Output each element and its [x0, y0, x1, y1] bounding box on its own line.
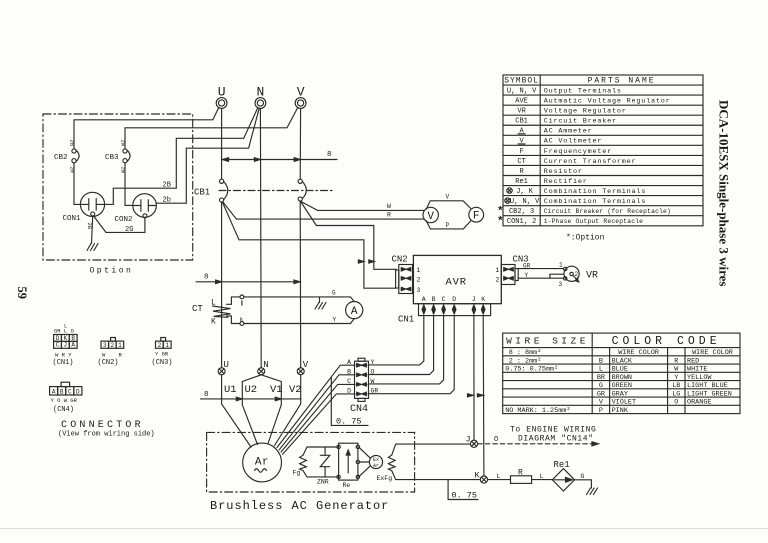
svg-text:GR: GR [523, 262, 531, 269]
wire U vertical to CB1 [221, 108, 223, 179]
svg-text:F: F [519, 148, 523, 156]
svg-text:O: O [674, 399, 678, 407]
svg-text:Y: Y [371, 359, 375, 366]
svg-text:0. 75: 0. 75 [336, 416, 362, 426]
svg-text:SYMBOL: SYMBOL [504, 77, 539, 86]
svg-text:DCA-10ESX Single-phase 3 wire: DCA-10ESX Single-phase 3 wires [717, 100, 732, 286]
svg-text:CON1, 2: CON1, 2 [507, 218, 536, 226]
node U [218, 360, 229, 375]
wire U2 to generator [242, 375, 261, 445]
svg-text:*: * [497, 216, 504, 228]
svg-text:To ENGINE WIRING: To ENGINE WIRING [510, 426, 596, 435]
wire K to resistor R [488, 479, 511, 481]
wire V2 to generator [275, 375, 301, 446]
svg-text:(CN3): (CN3) [152, 359, 173, 367]
svg-text:U2: U2 [245, 384, 258, 396]
svg-text:L: L [64, 323, 67, 330]
svg-text:G: G [332, 290, 336, 297]
svg-text:2B: 2B [163, 182, 171, 190]
wire U terminal to CB2 [74, 108, 219, 149]
rectifier Re1 [552, 460, 574, 491]
svg-text:2 : 2mm²: 2 : 2mm² [509, 357, 542, 365]
svg-text:Combination Terminals: Combination Terminals [544, 198, 646, 206]
svg-text:G: G [599, 382, 603, 390]
wire U1 to generator [222, 375, 251, 447]
svg-text:CB1: CB1 [194, 188, 210, 198]
svg-text:AC Ammeter: AC Ammeter [544, 128, 593, 136]
svg-text:P: P [599, 407, 603, 415]
wire CN4 C to generator [281, 384, 355, 452]
wire CN1 K down [482, 316, 485, 476]
wire CT to ammeter (bottom) [244, 319, 354, 324]
option box [43, 114, 193, 260]
CT secondary terminal k [240, 322, 244, 326]
svg-text:1: 1 [417, 267, 421, 274]
resistor ExFg [377, 455, 396, 482]
svg-text:GR: GR [371, 388, 379, 395]
svg-text:C: C [442, 296, 446, 303]
svg-text:VR: VR [517, 108, 526, 116]
svg-text:1: 1 [559, 262, 563, 269]
node J [466, 435, 478, 448]
svg-text:GR: GR [597, 390, 605, 398]
wire CN3 pin2 to VR (Y) [518, 277, 564, 279]
svg-text:W R Y: W R Y [55, 352, 72, 359]
wire CN1 C to CN4 [369, 316, 444, 384]
wire N terminal to CON2 (2b) [156, 108, 259, 203]
wire size and color code table [503, 333, 740, 414]
wire CT to ammeter (top) [244, 297, 354, 302]
svg-text:U: U [224, 360, 229, 370]
wire CB1 right to V-meter (W) [301, 202, 423, 211]
wire CB2 to CON1 [74, 163, 80, 205]
CN1 pin pins [422, 305, 485, 314]
svg-text:2W: 2W [120, 140, 127, 147]
wire size dimension 8 (top) [222, 151, 337, 161]
node V [297, 360, 309, 375]
AVR box U1 [413, 255, 501, 303]
svg-text:Re1: Re1 [515, 178, 528, 186]
svg-text:2: 2 [496, 276, 500, 283]
svg-text:PARTS NAME: PARTS NAME [588, 77, 656, 86]
tick marks J K [468, 394, 474, 397]
wire CB1 left to V-meter (R) [223, 202, 425, 220]
svg-text:ORANGE: ORANGE [687, 399, 711, 407]
wire ExFg to node K [392, 471, 481, 480]
node N [258, 360, 269, 375]
svg-text:U: U [218, 85, 226, 100]
svg-text:2: 2 [158, 342, 162, 349]
combination terminal symbol [507, 188, 512, 193]
svg-text:Voltage Regulator: Voltage Regulator [544, 108, 627, 116]
circuit breaker CB2 [54, 140, 79, 174]
svg-text:A: A [422, 296, 426, 303]
wire V vertical to CB1 [299, 108, 301, 179]
terminal U [216, 85, 227, 109]
svg-text:VR: VR [586, 271, 598, 282]
svg-text:NO MARK: 1.25mm²: NO MARK: 1.25mm² [505, 407, 570, 415]
wire CN4 D to generator [283, 394, 355, 454]
terminal N [255, 85, 266, 109]
svg-text:Circuit Breaker (for Receptacl: Circuit Breaker (for Receptacle) [544, 208, 671, 215]
CT secondary terminal l [240, 295, 244, 299]
svg-text:GRAY: GRAY [612, 390, 628, 398]
svg-text:A: A [52, 389, 56, 396]
svg-text:CN4: CN4 [350, 404, 368, 415]
svg-text:(View from wiring side): (View from wiring side) [58, 431, 155, 439]
svg-text:CB3: CB3 [105, 154, 119, 162]
svg-text:1: 1 [165, 342, 169, 349]
wire CB1 right to node V [299, 201, 302, 368]
svg-text:2G: 2G [86, 223, 93, 230]
wire CON1 to ground [92, 216, 93, 244]
svg-text:V: V [303, 360, 309, 370]
receptacle CON1 [63, 192, 105, 223]
connector legend CN3 [152, 338, 173, 368]
svg-text:CB2: CB2 [54, 154, 68, 162]
wire CN1 B to CN4 [369, 316, 434, 375]
meter underline [518, 133, 525, 135]
svg-text:K: K [211, 318, 216, 327]
svg-text:P: P [446, 222, 450, 229]
circuit breaker CB3 [105, 140, 130, 174]
svg-text:Re: Re [343, 482, 351, 489]
svg-text:B: B [432, 296, 436, 303]
svg-text:K: K [481, 296, 485, 303]
connector legend CN1 [53, 323, 78, 368]
svg-text:1: 1 [496, 267, 500, 274]
wire CN4 B to generator [279, 375, 354, 450]
wire Fg top bus [303, 447, 338, 455]
svg-text:Autmatic Voltage Regulator: Autmatic Voltage Regulator [544, 98, 671, 106]
svg-text:1: 1 [118, 342, 122, 349]
svg-text:L: L [497, 473, 501, 480]
svg-text:2: 2 [575, 271, 579, 278]
svg-text:C: C [56, 342, 60, 349]
svg-text:GREEN: GREEN [612, 382, 632, 390]
wire Re1 to ground [575, 480, 592, 488]
wire CN4 A to generator [277, 365, 355, 447]
potentiometer VR [559, 262, 599, 289]
wire size dimension 8 (mid) [196, 274, 300, 284]
svg-text:Y: Y [674, 374, 678, 382]
wire R to Re1 [532, 479, 553, 481]
svg-text:k: k [240, 316, 244, 323]
svg-text:G: G [581, 473, 585, 480]
svg-text:1-Phase Output Receptacle: 1-Phase Output Receptacle [544, 218, 643, 225]
tick marks on CN2 wires [358, 260, 364, 263]
svg-text:D: D [76, 389, 80, 396]
svg-text:CON2: CON2 [115, 216, 133, 224]
svg-text:Ar: Ar [373, 463, 379, 469]
svg-text:C: C [68, 389, 72, 396]
varistor ZNR [317, 447, 330, 486]
svg-text:R: R [387, 212, 391, 219]
svg-text:LIGHT GREEN: LIGHT GREEN [687, 390, 732, 398]
svg-text:AC Voltmeter: AC Voltmeter [544, 138, 603, 146]
svg-text:COLOR CODE: COLOR CODE [612, 335, 721, 348]
svg-text:Re1: Re1 [554, 460, 570, 470]
svg-text:W: W [371, 378, 375, 385]
wire N terminal to CON1 (2B) [105, 108, 258, 205]
svg-text:V1: V1 [270, 384, 283, 396]
svg-text:3: 3 [417, 287, 421, 294]
svg-text:BLUE: BLUE [612, 366, 628, 374]
svg-text:Combination Terminals: Combination Terminals [544, 188, 646, 196]
svg-text:J: J [472, 296, 476, 303]
svg-text:W: W [387, 203, 391, 210]
svg-text:B: B [60, 389, 64, 396]
svg-text:V: V [297, 85, 305, 100]
svg-text:WIRE SIZE: WIRE SIZE [506, 336, 589, 347]
svg-text:3: 3 [103, 342, 107, 349]
svg-text:Y: Y [525, 272, 529, 279]
parts name table [503, 75, 703, 226]
svg-text:LIGHT BLUE: LIGHT BLUE [687, 382, 728, 390]
svg-text:2B: 2B [69, 140, 76, 147]
connector CN2 [392, 255, 413, 294]
svg-text:J: J [466, 435, 471, 445]
svg-text:AVE: AVE [515, 98, 528, 106]
meter underline [518, 143, 525, 145]
svg-text:Y: Y [333, 317, 337, 324]
svg-text:U, N, V: U, N, V [510, 198, 540, 206]
svg-text:O: O [494, 436, 498, 444]
svg-text:WIRE COLOR: WIRE COLOR [618, 349, 659, 357]
connector CN3 [501, 255, 528, 285]
resistor Fg [293, 455, 307, 476]
svg-text:0. 75: 0. 75 [452, 491, 478, 501]
svg-text:8: 8 [204, 391, 209, 399]
generator armature Ar [243, 443, 282, 482]
svg-text:BROWN: BROWN [612, 374, 632, 382]
svg-text:(CN2): (CN2) [98, 359, 119, 367]
wire V1 to generator [261, 375, 281, 444]
current transformer CT [192, 299, 231, 327]
svg-text:V2: V2 [289, 384, 302, 396]
wire CN1 D to CN4 [369, 316, 455, 394]
wire size 0.75 (K wire) [448, 480, 478, 501]
svg-text:CT: CT [192, 304, 203, 314]
wire size 0.75 (CN4) [331, 378, 368, 426]
note engine wiring [510, 426, 596, 444]
svg-text:U1: U1 [224, 384, 237, 396]
wire CON2 to CON1 (2G) [94, 216, 145, 232]
svg-text:L: L [211, 299, 216, 308]
svg-text:ZNR: ZNR [317, 479, 329, 486]
svg-text:8: 8 [327, 151, 332, 159]
svg-text:AVR: AVR [446, 277, 467, 289]
generator box [207, 432, 415, 492]
svg-text:WHITE: WHITE [687, 366, 707, 374]
wire CB1 left to CN2 pin3 [222, 202, 396, 288]
wire N vertical to node N [259, 108, 262, 367]
connector legend CN2 [98, 338, 124, 368]
wire CB3 to CON2 [125, 163, 133, 206]
CT secondary leads [227, 297, 240, 304]
svg-text:*:Option: *:Option [566, 234, 605, 243]
svg-text:N: N [256, 85, 264, 100]
svg-text:8: 8 [204, 274, 209, 282]
svg-text:A: A [351, 306, 358, 318]
rectifier Re [337, 443, 360, 489]
terminal V [295, 85, 306, 109]
ground (option) [87, 244, 98, 251]
svg-text:(CN4): (CN4) [53, 406, 74, 414]
svg-text:R: R [518, 469, 523, 478]
connector legend CN4 [50, 382, 82, 414]
svg-text:Y GR: Y GR [155, 351, 169, 358]
svg-text:VIOLET: VIOLET [612, 399, 636, 407]
svg-text:3: 3 [559, 281, 563, 288]
svg-text:(CN1): (CN1) [53, 359, 74, 367]
svg-text:Circuit Breaker: Circuit Breaker [544, 118, 617, 126]
svg-text:LB: LB [672, 382, 680, 390]
connector CN4 [347, 358, 378, 415]
svg-text:Current Transformer: Current Transformer [544, 158, 637, 166]
svg-text:U, N, V: U, N, V [507, 87, 537, 95]
ground (Re1) [587, 488, 598, 495]
svg-text:B: B [599, 357, 603, 365]
ground (CT circuit) [315, 297, 326, 309]
wire size dimension 8 (lower) [201, 391, 302, 401]
wire ExFg to node J [392, 444, 471, 455]
wire J to engine (dashed) [478, 436, 599, 446]
wire CN1 A to CN4 [369, 316, 424, 365]
wire CB1 right to CN2 pin1 [301, 202, 396, 269]
svg-text:YELLOW: YELLOW [687, 374, 712, 382]
svg-text:ExFg: ExFg [377, 475, 393, 482]
svg-text:K: K [475, 471, 481, 481]
svg-text:2: 2 [111, 342, 115, 349]
svg-text:Option: Option [90, 267, 134, 276]
receptacle CON2 [115, 194, 157, 224]
svg-text:0.75: 0.75mm²: 0.75: 0.75mm² [505, 366, 558, 374]
svg-text:LG: LG [672, 390, 680, 398]
svg-text:8 : 8mm²: 8 : 8mm² [509, 349, 542, 357]
svg-text:Output Terminals: Output Terminals [544, 87, 622, 95]
svg-text:CN1: CN1 [398, 315, 414, 325]
wire V terminal to CB3 [125, 108, 298, 149]
svg-text:F: F [473, 211, 480, 223]
svg-text:Y O W GR: Y O W GR [51, 397, 78, 404]
svg-text:2: 2 [417, 276, 421, 283]
svg-text:BLACK: BLACK [612, 357, 633, 365]
svg-text:R: R [674, 357, 678, 365]
svg-text:59: 59 [15, 287, 29, 300]
svg-text:V: V [446, 194, 450, 201]
combination terminal symbol [505, 198, 510, 203]
svg-text:2G: 2G [125, 226, 133, 234]
labels U1 U2 V1 V2 [224, 384, 302, 396]
svg-text:Brushless AC Generator: Brushless AC Generator [210, 499, 389, 513]
wire Fg bottom bus [303, 471, 338, 477]
svg-text:CT: CT [517, 158, 525, 166]
svg-text:CONNECTOR: CONNECTOR [61, 420, 144, 431]
svg-text:BR: BR [597, 374, 605, 382]
svg-text:Frequencymeter: Frequencymeter [544, 148, 612, 156]
svg-text:A: A [71, 342, 75, 349]
wire CN1 J down [473, 316, 475, 441]
resistor R [511, 469, 532, 484]
svg-text:L: L [540, 473, 544, 480]
svg-text:Fg: Fg [293, 470, 301, 477]
svg-text:CB2, 3: CB2, 3 [509, 208, 534, 216]
svg-text:Rectifier: Rectifier [544, 178, 588, 186]
voltmeter V and frequency meter F assembly [423, 194, 484, 230]
svg-text:O: O [371, 369, 375, 376]
ammeter A [346, 302, 363, 319]
svg-text:2b: 2b [163, 197, 171, 205]
node K [475, 471, 488, 484]
svg-text:RED: RED [687, 357, 699, 365]
exciter armature ExAr [359, 448, 382, 477]
svg-text:CON1: CON1 [63, 215, 82, 223]
svg-text:J: J [64, 342, 68, 349]
svg-text:V: V [427, 211, 434, 223]
svg-text:CN2: CN2 [392, 255, 408, 265]
circuit breaker CB1 [194, 179, 332, 202]
svg-text:N: N [263, 360, 268, 370]
svg-text:Ar: Ar [255, 457, 269, 469]
wire CN3 pin1 to VR (GR) [518, 268, 563, 270]
svg-text:CB1: CB1 [515, 118, 528, 126]
svg-text:WIRE COLOR: WIRE COLOR [692, 349, 733, 357]
connector CN1 [398, 304, 491, 325]
svg-text:D: D [452, 296, 456, 303]
svg-text:L: L [599, 366, 603, 374]
svg-text:PINK: PINK [612, 407, 629, 415]
svg-text:Resistor: Resistor [544, 168, 583, 176]
wire CB1 left to node U [221, 202, 223, 368]
svg-text:DIAGRAM "CN14": DIAGRAM "CN14" [518, 435, 594, 444]
svg-text:J, K: J, K [516, 188, 534, 196]
